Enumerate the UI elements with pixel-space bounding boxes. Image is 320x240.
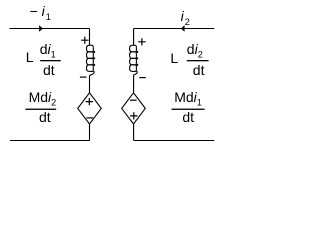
- plus inside left source: [86, 98, 93, 105]
- current arrow for i2 (points left): [181, 25, 185, 32]
- minus inside left source: [87, 117, 94, 119]
- wire: left source bottom lead: [89, 124, 91, 141]
- wire: right inductor bottom to dependent source: [133, 76, 135, 93]
- plus terminal mark of left inductor: [81, 37, 89, 44]
- fraction bar of M di2/dt (left): [25, 109, 56, 110]
- plus inside right source: [130, 112, 137, 119]
- denominator dt of left M fraction: [39, 110, 51, 124]
- numerator Mdi1 of right M fraction: [174, 90, 202, 105]
- wire: right source bottom lead: [133, 124, 135, 141]
- denominator dt of right M fraction: [182, 110, 194, 124]
- denominator dt of right L fraction: [193, 63, 205, 77]
- minus inside right source: [130, 99, 137, 101]
- minus terminal mark of left inductor: [80, 76, 87, 78]
- wire: top-right horizontal: [134, 28, 215, 30]
- wire: bottom-right horizontal: [134, 140, 215, 142]
- dependent source diamond (left, value M di2/dt): [78, 93, 102, 124]
- fraction bar of L di1/dt: [40, 60, 61, 61]
- wire: left vertical drop from top wire to inductor: [89, 29, 91, 46]
- fraction bar of L di2/dt: [187, 60, 209, 61]
- label L (left inductance): [26, 50, 34, 64]
- inductor L1 (left coil, 4 loops): [86, 45, 94, 76]
- minus terminal mark of right inductor: [139, 77, 146, 79]
- current arrow for -i1 (points right): [39, 25, 43, 32]
- wire: left inductor bottom to dependent source: [89, 76, 91, 93]
- label L (right inductance): [170, 51, 178, 65]
- fraction bar of M di1/dt (right): [172, 109, 205, 110]
- wire: bottom-left horizontal: [10, 140, 90, 142]
- inductor L2 (right coil, 4 loops): [130, 45, 138, 76]
- label i2 (top right current): [181, 9, 190, 24]
- numerator di1 of left L fraction: [40, 42, 56, 57]
- wire: top-left horizontal: [10, 28, 90, 30]
- numerator Mdi2 of left M fraction: [29, 90, 57, 105]
- label -i1 (top left current): [30, 4, 51, 19]
- plus terminal mark of right inductor: [138, 38, 146, 45]
- wire: right vertical drop from top wire to inductor: [133, 29, 135, 46]
- denominator dt of left L fraction: [43, 63, 55, 77]
- numerator di2 of right L fraction: [187, 42, 203, 57]
- dependent source diamond (right, value M di1/dt): [122, 93, 146, 124]
